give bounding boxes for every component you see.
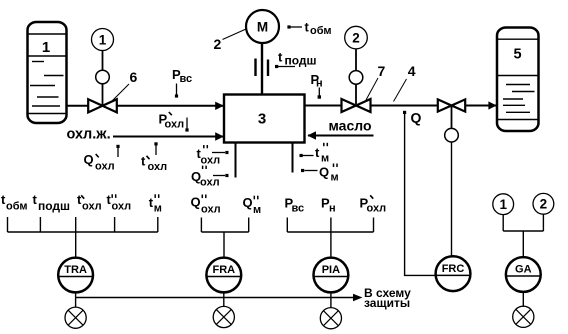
- lamp TRA: [65, 307, 86, 328]
- wire: oil pipe into compressor: [308, 135, 374, 137]
- svg-text:вс: вс: [292, 203, 305, 215]
- svg-text:обм: обм: [6, 201, 28, 213]
- control valve (flow): [438, 99, 465, 111]
- control valve positioner: [445, 128, 459, 142]
- label t'ohl measurement point: [141, 142, 167, 173]
- svg-text:Q: Q: [411, 110, 422, 126]
- vessel 5: [497, 28, 539, 132]
- svg-text:4: 4: [408, 63, 416, 79]
- label Pvc measurement point: [172, 67, 192, 98]
- valve 6 actuator stem: [102, 51, 104, 71]
- instrument FRA: [206, 258, 241, 293]
- svg-text:м: м: [321, 153, 329, 165]
- wire: FRA to lamp: [223, 293, 225, 307]
- svg-text:1: 1: [99, 32, 107, 47]
- svg-text:м: м: [253, 204, 261, 216]
- wire: bracket group 3 to PIA: [287, 218, 373, 258]
- valve 7 positioner: [349, 71, 363, 85]
- signal list group 1: t_obm t_podsh t'ohl t''ohl t''m: [1, 192, 162, 215]
- instrument bubble 1 (valve 6): [92, 29, 114, 51]
- svg-text:TRA: TRA: [64, 264, 87, 276]
- svg-text:Q: Q: [84, 152, 94, 167]
- svg-text:м: м: [331, 172, 339, 184]
- vessel 1: [28, 22, 67, 123]
- valve 6: [88, 99, 117, 112]
- wire: cooling liquid pipe to compressor: [113, 136, 224, 138]
- svg-text:7: 7: [378, 63, 386, 79]
- wire: discharge pipe compressor to valve 7: [305, 105, 342, 107]
- motor M: [246, 10, 279, 43]
- wire: TRA to lamp: [75, 293, 77, 308]
- svg-text:подш: подш: [285, 54, 317, 68]
- svg-text:2: 2: [540, 197, 548, 212]
- svg-text:1: 1: [499, 197, 507, 212]
- signal list group 2: Q''ohl Q''m: [191, 195, 262, 217]
- svg-text:t: t: [278, 50, 283, 65]
- svg-text:охл: охл: [95, 160, 115, 172]
- wire: pipe control valve to vessel 5: [466, 105, 498, 107]
- svg-text:Q: Q: [191, 195, 201, 210]
- lamp GA: [513, 306, 534, 327]
- instrument GA: [506, 257, 541, 292]
- wire: suction pipe to compressor: [118, 105, 225, 107]
- svg-text:охл: охл: [148, 161, 168, 173]
- wire: motor shaft: [261, 43, 263, 95]
- instrument PIA: [314, 258, 349, 293]
- instrument bubble 1 (GA input): [493, 194, 514, 215]
- svg-text:охл: охл: [367, 203, 387, 215]
- svg-text:подш: подш: [38, 199, 70, 213]
- svg-text:Q: Q: [319, 165, 329, 180]
- lamp FRA: [213, 306, 234, 327]
- svg-text:Q: Q: [243, 195, 253, 210]
- svg-text:t: t: [33, 192, 38, 207]
- wire: bracket group 1 to TRA: [8, 217, 158, 258]
- lamp PIA: [320, 308, 341, 329]
- svg-text:охл.ж.: охл.ж.: [67, 127, 111, 143]
- svg-text:охл: охл: [200, 176, 220, 188]
- label Q''m measurement point: [301, 164, 339, 184]
- svg-text:вс: вс: [180, 73, 193, 85]
- label t''m measurement point: [300, 143, 330, 165]
- control valve stem: [451, 106, 453, 129]
- coupling: [254, 59, 256, 77]
- wire: bracket group 2 to FRA: [201, 218, 248, 258]
- instrument FRC: [436, 256, 471, 291]
- wire: bubbles to GA bracket: [503, 214, 543, 257]
- svg-text:н: н: [329, 203, 336, 215]
- svg-text:защиты: защиты: [364, 296, 410, 310]
- svg-text:t: t: [141, 154, 146, 169]
- svg-text:охл: охл: [201, 204, 221, 216]
- svg-text:t: t: [305, 20, 310, 35]
- wire: PIA to lamp: [330, 293, 332, 308]
- label P'ohl measurement point: [159, 112, 189, 132]
- wire: discharge pipe valve 7 to control valve: [371, 105, 438, 107]
- svg-text:охл: охл: [165, 119, 185, 131]
- instrument bubble 2 (GA input): [533, 193, 554, 214]
- label Q''ohl measurement point: [191, 166, 229, 189]
- label t_obm measurement point: [287, 20, 331, 38]
- svg-text:2: 2: [352, 30, 360, 45]
- svg-text:3: 3: [258, 111, 266, 128]
- label t_podsh measurement point: [275, 50, 317, 69]
- wire: compressor sensor drop left: [235, 143, 237, 178]
- node Q measurement point: [403, 110, 422, 126]
- compressor 3: [224, 95, 305, 143]
- wire: Q signal to FRC: [405, 114, 436, 275]
- svg-text:охл: охл: [112, 201, 132, 213]
- svg-text:FRC: FRC: [442, 263, 465, 275]
- valve 7 actuator stem: [355, 49, 357, 71]
- label t''ohl measurement point: [197, 145, 229, 167]
- wire: positioner to FRC: [451, 142, 453, 257]
- wire: GA to lamp: [522, 292, 524, 306]
- svg-text:PIA: PIA: [322, 264, 340, 276]
- svg-text:1: 1: [42, 39, 50, 56]
- signal list group 3: Pvc Pn P'ohl: [285, 195, 387, 214]
- svg-text:2: 2: [214, 36, 222, 52]
- valve 7: [342, 99, 371, 112]
- wire: compressor sensor drop right: [292, 143, 294, 173]
- label Pn measurement point: [311, 72, 323, 99]
- svg-text:масло: масло: [329, 118, 372, 134]
- instrument bubble 2 (valve 7): [345, 26, 368, 49]
- svg-text:6: 6: [130, 69, 138, 85]
- instrument TRA: [58, 258, 93, 293]
- svg-text:FRA: FRA: [212, 264, 235, 276]
- valve 6 positioner: [96, 70, 110, 84]
- label Q'ohl measurement point: [84, 145, 120, 173]
- svg-text:охл: охл: [201, 155, 221, 167]
- svg-text:GA: GA: [515, 264, 532, 276]
- svg-text:5: 5: [513, 47, 521, 63]
- svg-text:обм: обм: [310, 25, 332, 37]
- svg-text:t: t: [315, 145, 320, 160]
- svg-text:M: M: [257, 20, 268, 35]
- svg-text:м: м: [154, 203, 162, 215]
- wire: pipe vessel 1 to valve 6: [67, 105, 89, 107]
- svg-text:охл: охл: [82, 201, 102, 213]
- wire: alarm bus to protection: [76, 297, 354, 299]
